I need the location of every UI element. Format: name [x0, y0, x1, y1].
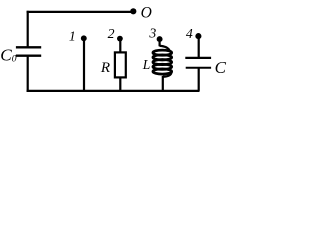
resistor R: [115, 52, 126, 77]
svg-text:4: 4: [186, 26, 193, 41]
svg-text:R: R: [100, 60, 110, 76]
wire bottom (bottom-left corner to bottom-right corner): [27, 90, 200, 92]
wire left lower (C0 bottom plate down to bottom-left corner): [27, 56, 29, 92]
svg-text:1: 1: [69, 29, 76, 44]
node 4 contact dot: [195, 33, 201, 39]
svg-text:O: O: [141, 4, 152, 21]
inductor L: [153, 40, 172, 77]
node 2 contact dot: [117, 36, 123, 42]
wire capacitor C top lead: [198, 37, 200, 58]
capacitor C: [185, 58, 211, 68]
wire resistor bottom lead: [119, 77, 121, 91]
svg-text:3: 3: [148, 25, 156, 40]
node 3 contact dot: [157, 36, 163, 42]
wire top (from top-left corner to terminal O): [27, 11, 133, 13]
svg-text:2: 2: [108, 26, 115, 41]
node 1 contact dot: [81, 35, 87, 41]
svg-text:C: C: [215, 58, 227, 77]
terminal O dot: [130, 8, 136, 14]
svg-text:L: L: [142, 57, 151, 72]
wire left upper (top corner down to C0 top plate): [27, 11, 29, 48]
wire branch 1 (node 1 down to bottom wire): [83, 39, 85, 91]
wire capacitor C bottom lead: [198, 68, 200, 91]
wire inductor bottom lead: [162, 76, 164, 91]
wire resistor top lead: [119, 39, 121, 53]
capacitor C0: [16, 47, 41, 55]
